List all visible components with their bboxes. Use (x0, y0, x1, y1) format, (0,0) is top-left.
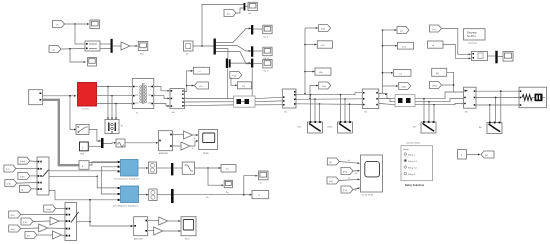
svg-text:Relay 1: Relay 1 (408, 154, 416, 156)
svg-text:[wb]: [wb] (7, 184, 11, 186)
svg-text:Zero-Sequence Impedance: Zero-Sequence Impedance (114, 178, 140, 181)
svg-text:[me]: [me] (321, 29, 325, 31)
svg-text:Inverter: Inverter (82, 108, 89, 111)
svg-text:[md]: [md] (402, 87, 406, 89)
svg-text:Vs: Vs (56, 25, 58, 27)
svg-text:ABC1/IM: ABC1/IM (134, 238, 143, 241)
svg-text:[wbq]: [wbq] (46, 209, 51, 211)
svg-text:[nb]: [nb] (329, 181, 333, 183)
svg-text:S1m: S1m (185, 239, 190, 241)
svg-text:pos: pos (400, 31, 403, 33)
svg-text:[Pb]: [Pb] (23, 222, 27, 224)
svg-text:Relay m2: Relay m2 (408, 167, 418, 169)
svg-text:[u7b]: [u7b] (20, 176, 25, 178)
svg-text:V1 V2 V3 B1: V1 V2 V3 B1 (362, 195, 375, 197)
svg-text:powergui: powergui (469, 42, 478, 45)
svg-text:L3m: L3m (297, 127, 301, 129)
svg-text:[Ir]: [Ir] (329, 161, 332, 164)
svg-text:[wbq]: [wbq] (20, 161, 25, 163)
svg-text:Vc_b: Vc_b (264, 71, 270, 73)
svg-text:Relay L+1: Relay L+1 (408, 161, 418, 163)
svg-text:M: M (121, 126, 123, 128)
svg-text:[B]: [B] (436, 73, 439, 75)
svg-text:[L7]: [L7] (6, 169, 10, 171)
svg-text:[ve]: [ve] (433, 29, 437, 31)
svg-text:PQ: PQ (242, 86, 245, 88)
svg-text:PQs: PQs (140, 54, 144, 56)
svg-text:Discrete: Discrete (467, 31, 477, 35)
svg-text:[w]: [w] (485, 155, 488, 157)
svg-text:Relay 0: Relay 0 (408, 174, 416, 176)
svg-text:5e-05 s.: 5e-05 s. (467, 34, 477, 38)
svg-text:RPMs: RPMs (203, 153, 209, 155)
svg-text:[w]: [w] (227, 14, 230, 16)
svg-text:U12m: U12m (327, 127, 333, 129)
svg-text:Zero-Sequence Impedance: Zero-Sequence Impedance (113, 204, 139, 207)
svg-text:[wb]: [wb] (11, 229, 15, 231)
svg-text:[P]: [P] (27, 236, 30, 238)
svg-text:Group: Group (403, 148, 410, 151)
svg-text:[Pb]: [Pb] (11, 215, 15, 217)
svg-text:Constant Value: Constant Value (406, 142, 421, 145)
svg-text:[PQ]: [PQ] (433, 86, 438, 88)
svg-text:[PQ]: [PQ] (343, 190, 348, 192)
svg-text:[PQ]: [PQ] (343, 172, 348, 174)
svg-text:ASM1/IM: ASM1/IM (159, 152, 168, 155)
svg-text:Relay Selection: Relay Selection (405, 183, 425, 187)
